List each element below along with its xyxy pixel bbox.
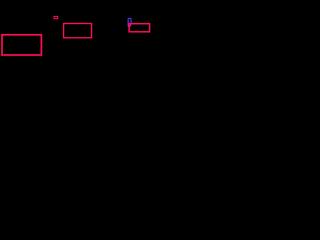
box 3 (medium red, center) xyxy=(64,24,92,38)
box 2 (tiny red, upper-left) xyxy=(54,16,58,18)
box 4 (red, top-right) xyxy=(129,24,150,32)
box 1 (large red, bottom-left) xyxy=(2,35,41,55)
box 5 (small purple, top-right) xyxy=(128,18,131,26)
